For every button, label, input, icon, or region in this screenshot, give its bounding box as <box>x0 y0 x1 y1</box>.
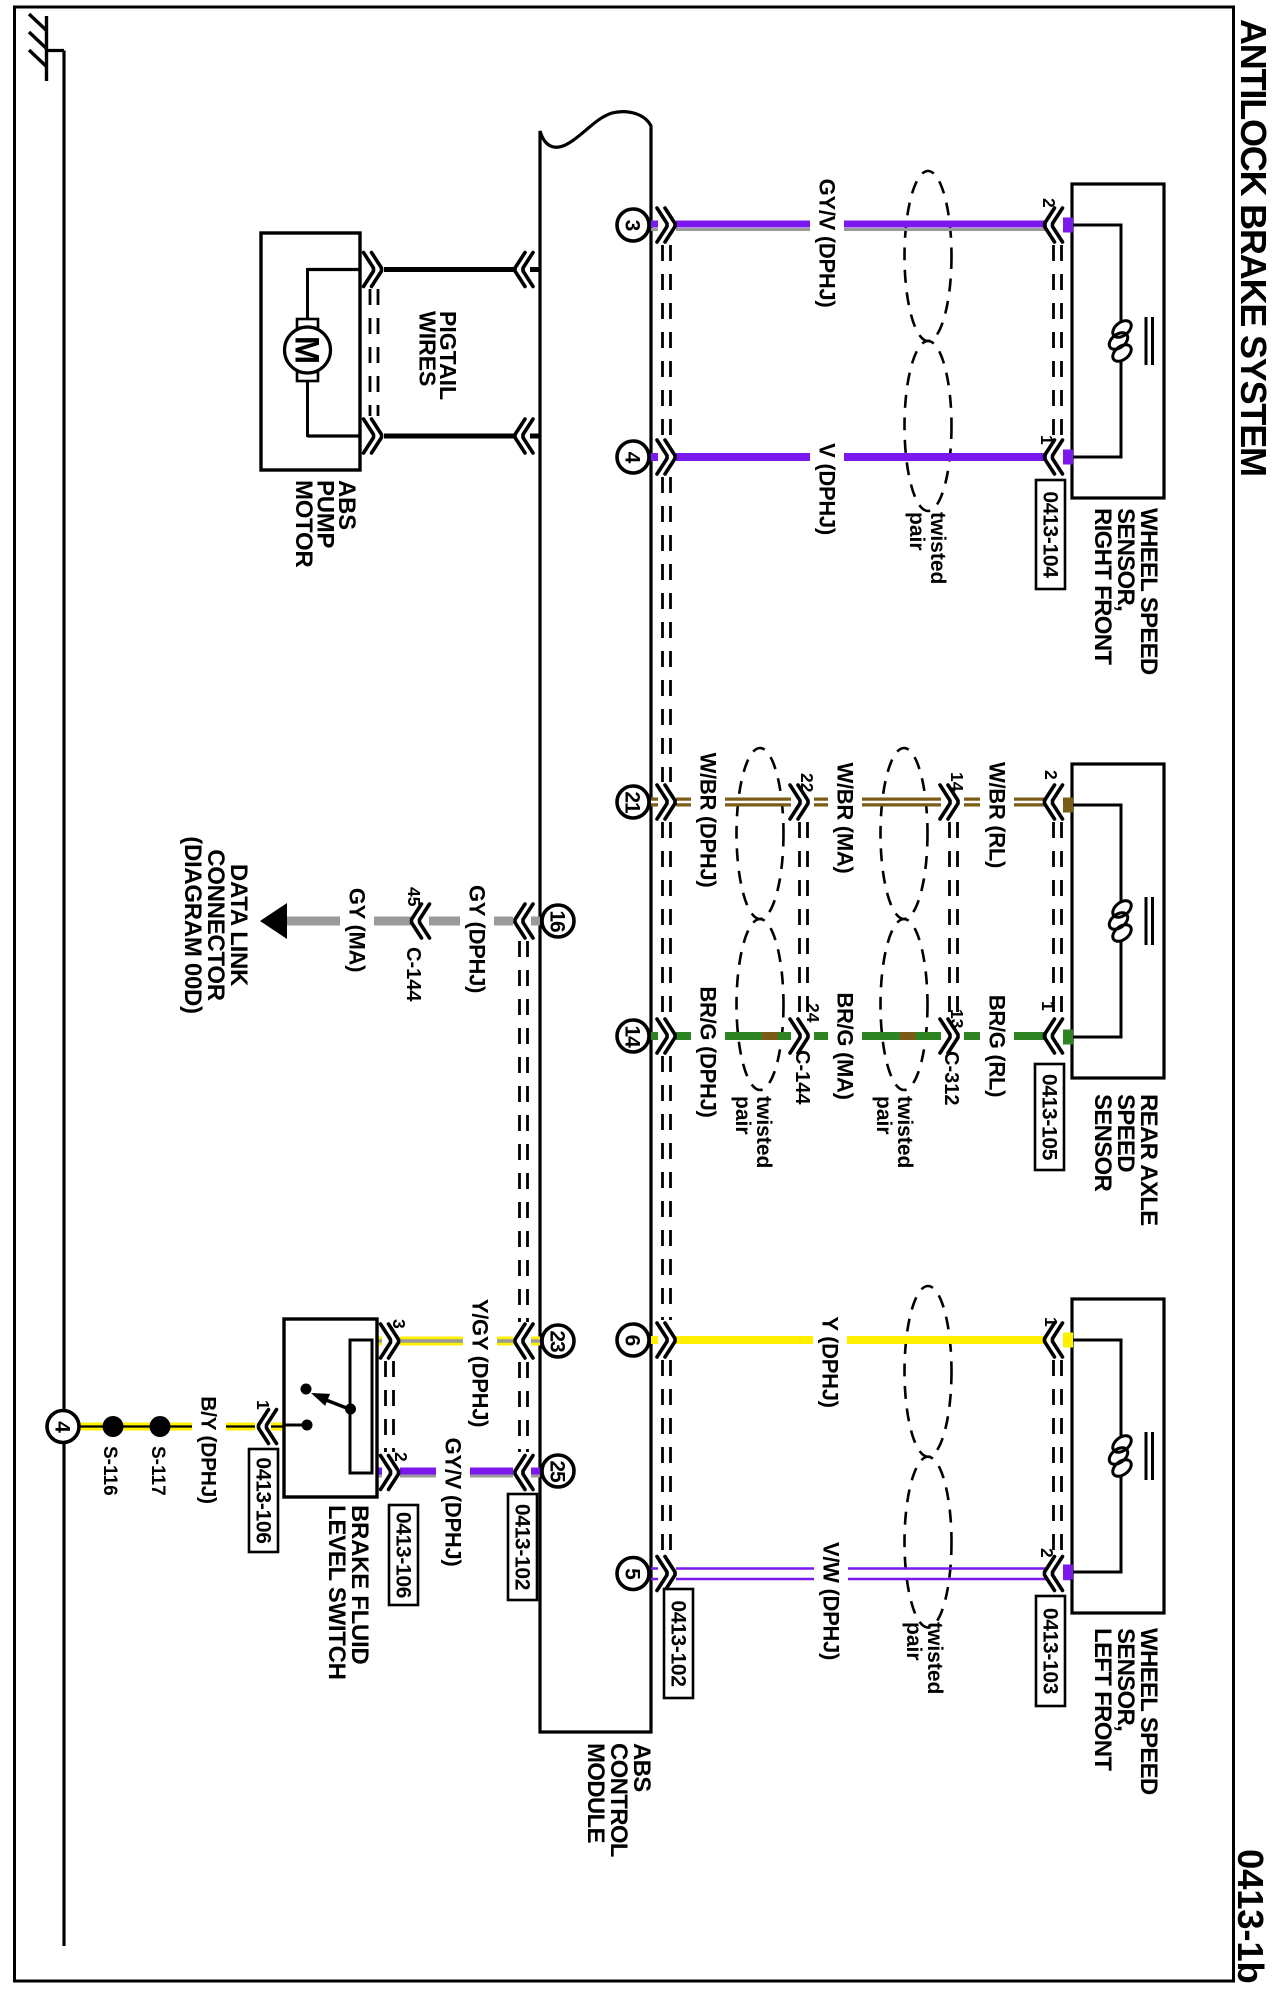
svg-text:0413-102: 0413-102 <box>511 1504 534 1590</box>
motor M1 symbol <box>285 327 331 373</box>
svg-text:0413-103: 0413-103 <box>1039 1608 1062 1694</box>
label twisted pair RA 1 <box>731 1096 775 1168</box>
label W/BR (RL) <box>980 757 1014 874</box>
module pin 4 <box>617 441 649 473</box>
label PIGTAIL WIRES <box>415 311 462 400</box>
ground G100 chassis symbol <box>29 14 47 81</box>
switch contact upper <box>301 1384 312 1395</box>
svg-text:GY/V (DPHJ): GY/V (DPHJ) <box>441 1438 466 1567</box>
pin 1 RF sensor <box>1037 435 1057 445</box>
label BRAKE FLUID LEVEL SWITCH <box>323 1505 373 1680</box>
connector break at module pin wire y=802 <box>657 785 675 819</box>
svg-text:21: 21 <box>621 791 644 814</box>
module pin 6 <box>617 1324 649 1356</box>
pigtail wire upper <box>308 268 541 271</box>
switch arm <box>311 1393 351 1410</box>
svg-text:2: 2 <box>1039 198 1059 208</box>
svg-text:0413-104: 0413-104 <box>1039 491 1062 578</box>
pin 1 switch <box>253 1400 273 1410</box>
svg-text:W/BR (MA): W/BR (MA) <box>833 763 858 874</box>
box label 0413-106 GY/V <box>389 1505 418 1605</box>
svg-text:13: 13 <box>947 1009 967 1029</box>
label W/BR (DPHJ) <box>691 749 725 891</box>
dashed pair at LF sensor <box>1054 1360 1062 1553</box>
label Y/GY (DPHJ) <box>463 1292 497 1434</box>
svg-text:GY (MA): GY (MA) <box>345 888 370 972</box>
connector break C-144 wire y=1036 <box>790 1019 808 1053</box>
pin 2 RA sensor <box>1041 770 1061 780</box>
svg-text:B/Y (DPHJ): B/Y (DPHJ) <box>197 1396 220 1503</box>
twisted pair symbol RF <box>905 171 952 511</box>
wire BR/G pin 14 to RA sensor <box>651 1032 1072 1040</box>
svg-text:6: 6 <box>621 1335 644 1346</box>
ABS control module U1 outline <box>540 112 651 1732</box>
dashed pair at RA sensor <box>1054 822 1062 1016</box>
pigtail wire lower <box>308 434 541 437</box>
svg-text:2: 2 <box>1041 770 1061 780</box>
label W/BR (MA) <box>828 760 862 877</box>
dashed harness right of module <box>663 245 671 1553</box>
svg-text:1: 1 <box>253 1400 273 1410</box>
connector break at sensor wire y=1340 <box>1045 1323 1063 1357</box>
connector break at module pin wire y=1573.5 <box>657 1557 675 1591</box>
rear axle speed sensor <box>1063 764 1164 1078</box>
connector break at sensor wire y=225 <box>1045 208 1063 242</box>
connector break at sensor wire y=802 <box>1045 785 1063 819</box>
pin 2 LF sensor <box>1037 1548 1057 1558</box>
pin 1 LF sensor <box>1041 1317 1061 1327</box>
connector break Y/GY at switch <box>381 1324 399 1358</box>
brake fluid level switch box <box>284 1319 377 1497</box>
label GY (MA) <box>340 884 374 976</box>
module pin 16 <box>542 905 574 937</box>
label BR/G (DPHJ) <box>691 981 725 1123</box>
label S-116 <box>99 1446 120 1496</box>
connector break GY/V at switch <box>381 1456 399 1490</box>
switch inner frame <box>350 1340 372 1473</box>
svg-text:GY (DPHJ): GY (DPHJ) <box>465 885 490 993</box>
wheel speed sensor left front <box>1063 1299 1164 1613</box>
label GY (DPHJ) <box>460 881 494 998</box>
connector break GY at C-144 <box>412 904 430 938</box>
svg-text:W/BR (RL): W/BR (RL) <box>985 762 1010 868</box>
svg-text:22: 22 <box>797 773 817 793</box>
svg-text:M: M <box>288 336 326 364</box>
label C-144 under BR/G <box>791 1050 813 1105</box>
wire W/BR pin 21 to RA sensor <box>651 798 1072 807</box>
svg-text:45: 45 <box>404 887 424 907</box>
pin 2 RF sensor <box>1039 198 1059 208</box>
title ANTILOCK BRAKE SYSTEM <box>1233 19 1274 476</box>
connector break B/Y at switch <box>259 1410 277 1444</box>
label WHEEL SPEED SENSOR RIGHT FRONT <box>1089 508 1162 675</box>
twisted pair symbol RA DPHJ <box>737 748 784 1090</box>
connector break at sensor wire y=1573.5 <box>1045 1557 1063 1591</box>
connector break C-144 wire y=802 <box>790 785 808 819</box>
twisted pair symbol RA MA <box>881 748 928 1090</box>
connector break at module pin wire y=1036 <box>657 1019 675 1053</box>
node 4 on ground rail <box>47 1411 79 1443</box>
svg-text:0413-106: 0413-106 <box>252 1457 275 1543</box>
dashed pair at RF sensor <box>1054 245 1062 437</box>
dashed harness left of module <box>520 941 528 1452</box>
connector break GY/V at module <box>515 1456 533 1490</box>
svg-text:BRAKE FLUIDLEVEL SWITCH: BRAKE FLUIDLEVEL SWITCH <box>323 1505 373 1680</box>
connector break GY at module <box>515 904 533 938</box>
connector break at sensor wire y=1036 <box>1045 1019 1063 1053</box>
connector break C-312 wire y=802 <box>940 785 958 819</box>
label GY/V (DPHJ) top <box>810 172 844 314</box>
box label 0413-104 <box>1036 480 1065 589</box>
label BR/G (RL) <box>980 988 1014 1105</box>
svg-text:GY/V (DPHJ): GY/V (DPHJ) <box>815 179 840 308</box>
label Y (DPHJ) <box>813 1310 847 1415</box>
connector break pigtail lower at module <box>515 419 533 453</box>
label ABS PUMP MOTOR <box>290 480 360 567</box>
wire GY/V (DPHJ) pin 3 to RF sensor <box>651 224 1072 230</box>
wire V/W (DPHJ) pin 5 to LF sensor <box>651 1569 1072 1580</box>
pin 13 C-312 <box>947 1009 967 1029</box>
svg-text:2: 2 <box>391 1452 411 1462</box>
splice S-116 <box>103 1416 124 1437</box>
svg-text:Y/GY (DPHJ): Y/GY (DPHJ) <box>468 1299 493 1427</box>
box label 0413-106 B/Y <box>249 1449 278 1552</box>
pin 3 switch <box>389 1319 409 1329</box>
pin 22 C-144 <box>797 773 817 793</box>
svg-text:V/W (DPHJ): V/W (DPHJ) <box>819 1542 844 1660</box>
svg-text:0413-102: 0413-102 <box>667 1600 690 1686</box>
svg-text:0413-106: 0413-106 <box>392 1512 415 1598</box>
svg-text:16: 16 <box>546 910 569 932</box>
wire Y (DPHJ) pin 6 to LF sensor <box>651 1336 1072 1344</box>
svg-text:BR/G (MA): BR/G (MA) <box>833 992 858 1099</box>
svg-text:V (DPHJ): V (DPHJ) <box>815 443 840 535</box>
module pin 23 <box>542 1325 574 1357</box>
label WHEEL SPEED SENSOR LEFT FRONT <box>1089 1628 1162 1795</box>
label twisted pair RF <box>905 512 949 584</box>
connector break pigtail upper at module <box>515 253 533 287</box>
pin 1 RA sensor <box>1038 1001 1058 1011</box>
ABS pump motor box <box>261 233 360 470</box>
connector break at module pin wire y=225 <box>657 208 675 242</box>
label twisted pair LF <box>902 1622 946 1694</box>
dashed pair at ABS pump motor <box>370 289 378 416</box>
wire ground link <box>45 49 64 52</box>
box label 0413-103 <box>1036 1596 1065 1706</box>
twisted pair symbol LF <box>905 1286 952 1628</box>
connector break Y/GY at module <box>515 1324 533 1358</box>
svg-text:BR/G (DPHJ): BR/G (DPHJ) <box>696 986 721 1117</box>
svg-text:24: 24 <box>803 1003 823 1023</box>
svg-text:25: 25 <box>546 1460 569 1483</box>
svg-text:3: 3 <box>389 1319 409 1329</box>
label C-312 under BR/G <box>940 1051 962 1105</box>
wheel speed sensor right front <box>1063 184 1164 498</box>
box label 0413-102 right <box>664 1589 693 1698</box>
module pin 14 <box>617 1020 649 1052</box>
connector break C-312 wire y=1036 <box>940 1019 958 1053</box>
svg-text:0413-105: 0413-105 <box>1038 1074 1061 1161</box>
svg-text:Y (DPHJ): Y (DPHJ) <box>818 1316 843 1407</box>
svg-text:23: 23 <box>546 1330 569 1352</box>
connector break pigtail upper at motor <box>364 253 382 287</box>
sheet number 0413-1b <box>1230 1849 1271 1984</box>
pin 24 C-144 <box>803 1003 823 1023</box>
svg-text:0413-1b: 0413-1b <box>1230 1849 1271 1984</box>
pin 2 switch <box>391 1452 411 1462</box>
connector break at sensor wire y=457 <box>1045 440 1063 474</box>
wire V (DPHJ) pin 4 to RF sensor <box>651 453 1072 461</box>
svg-text:14: 14 <box>947 772 967 792</box>
dashed pair at connector C-144 <box>800 822 808 1016</box>
wire GY (DPHJ/MA) pin 16 to data link connector <box>287 917 540 926</box>
module pin 3 <box>617 209 649 241</box>
svg-text:ANTILOCK BRAKE SYSTEM: ANTILOCK BRAKE SYSTEM <box>1233 19 1274 476</box>
label DATA LINK CONNECTOR (DIAGRAM 00D) <box>179 836 252 1013</box>
switch pin1 stub <box>286 1424 308 1427</box>
module pin 21 <box>617 786 649 818</box>
svg-text:5: 5 <box>621 1568 644 1580</box>
svg-text:S-117: S-117 <box>147 1446 168 1496</box>
svg-text:1: 1 <box>1037 435 1057 445</box>
module pin 25 <box>542 1455 574 1487</box>
svg-text:1: 1 <box>1038 1001 1058 1011</box>
label C-144 on GY wire <box>402 947 424 1002</box>
svg-text:1: 1 <box>1041 1317 1061 1327</box>
svg-text:14: 14 <box>621 1025 644 1048</box>
connector break pigtail lower at motor <box>364 419 382 453</box>
wire Y/GY pin 23 to switch <box>377 1337 540 1346</box>
dashed pair at connector C-312 <box>950 822 958 1016</box>
svg-text:C-312: C-312 <box>940 1051 962 1105</box>
label B/Y (DPHJ) <box>192 1388 226 1512</box>
svg-text:C-144: C-144 <box>402 947 424 1002</box>
svg-text:S-116: S-116 <box>99 1446 120 1496</box>
connector break at module pin wire y=1340 <box>657 1323 675 1357</box>
svg-text:4: 4 <box>51 1421 74 1433</box>
switch pivot <box>345 1404 356 1415</box>
label twisted pair RA 2 <box>872 1096 916 1168</box>
svg-text:4: 4 <box>621 452 644 464</box>
box label 0413-102 left <box>508 1494 537 1600</box>
module pin 5 <box>617 1558 649 1590</box>
motor M1 internal wiring <box>297 268 362 437</box>
wire ground rail <box>62 51 65 1947</box>
box label 0413-105 <box>1035 1064 1064 1170</box>
label S-117 <box>147 1446 168 1496</box>
label GY/V (DPHJ) bottom <box>436 1431 470 1573</box>
wire GY/V pin 25 to switch <box>377 1471 540 1476</box>
label V/W (DPHJ) <box>814 1536 848 1665</box>
label BR/G (MA) <box>828 988 862 1105</box>
switch contact lower <box>302 1420 313 1431</box>
pin 14 C-312 <box>947 772 967 792</box>
dashed pair at brake fluid level switch <box>386 1361 394 1452</box>
pin 45 C-144 <box>404 887 424 907</box>
label REAR AXLE SPEED SENSOR <box>1089 1094 1162 1226</box>
splice S-117 <box>150 1416 171 1437</box>
svg-text:W/BR (DPHJ): W/BR (DPHJ) <box>696 753 721 888</box>
svg-text:2: 2 <box>1037 1548 1057 1558</box>
wire B/Y ground rail to switch <box>80 1423 283 1431</box>
data link connector arrow <box>260 903 287 939</box>
label ABS CONTROL MODULE <box>582 1743 655 1857</box>
svg-text:C-144: C-144 <box>791 1050 813 1105</box>
label V (DPHJ) <box>810 437 844 542</box>
svg-text:3: 3 <box>621 220 644 231</box>
connector break at module pin wire y=457 <box>657 440 675 474</box>
svg-text:BR/G (RL): BR/G (RL) <box>985 995 1010 1097</box>
